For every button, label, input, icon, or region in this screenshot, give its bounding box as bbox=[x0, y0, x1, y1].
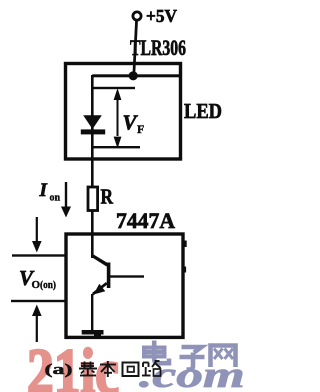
node VO bottom reference line bbox=[11, 300, 65, 302]
wire internal top rail bbox=[92, 74, 180, 77]
wire emitter to ground bbox=[91, 294, 93, 331]
node VF bottom reference line bbox=[91, 146, 140, 148]
voltage arrow VO top bbox=[36, 217, 38, 242]
terminal +5V bbox=[133, 12, 141, 20]
resistor R bbox=[88, 187, 98, 211]
transistor Q1 base bar bbox=[107, 263, 111, 289]
node VF top reference line bbox=[91, 87, 135, 89]
transistor Q1 emitter arrow bbox=[94, 284, 106, 295]
svg-text:7447A: 7447A bbox=[116, 208, 175, 233]
wire base lead bbox=[110, 275, 144, 277]
svg-text:LED: LED bbox=[184, 99, 222, 123]
pin stub right middle bbox=[184, 267, 187, 273]
wire from +5V terminal to LED box bbox=[132, 20, 138, 77]
svg-text:(a): (a) bbox=[45, 362, 73, 378]
voltage arrow VO bottom bbox=[32, 305, 42, 317]
caption bbox=[45, 361, 161, 378]
LED diode D1 bbox=[83, 115, 102, 129]
wire main vertical trunk bbox=[91, 75, 94, 258]
junction node dot bbox=[129, 71, 138, 80]
svg-text:R: R bbox=[101, 185, 114, 209]
wire emitter lead bbox=[92, 282, 108, 295]
wire collector lead bbox=[92, 255, 109, 267]
voltage arrow VF (double headed) bbox=[117, 91, 119, 136]
svg-text:TLR306: TLR306 bbox=[130, 35, 186, 60]
watermark background bbox=[27, 336, 245, 392]
pin stub right top bbox=[184, 241, 187, 248]
svg-text:I: I bbox=[39, 180, 48, 201]
schematic ink bbox=[11, 6, 222, 342]
IC U2 7447A box bbox=[66, 234, 183, 337]
svg-text:.com: .com bbox=[139, 354, 245, 392]
svg-text:on: on bbox=[50, 193, 61, 204]
svg-text:F: F bbox=[137, 122, 144, 136]
current arrow Ion bbox=[65, 182, 67, 207]
ground bbox=[82, 330, 104, 335]
svg-text:+5V: +5V bbox=[146, 6, 177, 26]
IC U1 TLR306 LED module box bbox=[66, 64, 181, 160]
node VO top reference line bbox=[12, 254, 65, 256]
svg-text:(on): (on) bbox=[40, 280, 56, 291]
